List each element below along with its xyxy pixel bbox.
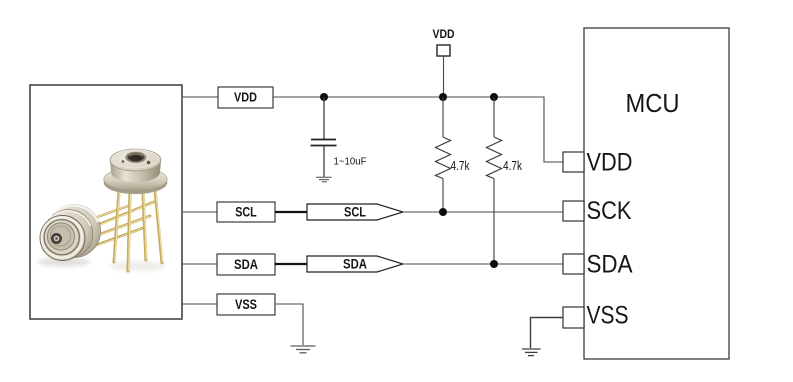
- svg-text:SDA: SDA: [343, 257, 367, 272]
- svg-text:1~10uF: 1~10uF: [334, 156, 367, 168]
- wire SCL box to buffer (thick): [275, 211, 307, 213]
- ground (sensor VSS): [291, 346, 316, 353]
- sensor module box: [30, 85, 182, 319]
- svg-text:4.7k: 4.7k: [451, 159, 471, 173]
- wire SCL arrow to MCU SCK: [403, 211, 563, 213]
- wire MCU VSS to ground: [531, 318, 564, 349]
- junction node R1 top: [439, 93, 447, 101]
- svg-text:MCU: MCU: [626, 88, 680, 118]
- svg-text:VDD: VDD: [234, 90, 257, 105]
- wire sensor to VSS box: [182, 303, 217, 305]
- label box SDA: [217, 254, 275, 275]
- wire sensor to SCL box: [182, 211, 217, 213]
- capacitor C1: [311, 97, 367, 177]
- svg-text:VSS: VSS: [235, 297, 257, 312]
- wire VSS box to ground: [275, 304, 303, 345]
- svg-text:SCL: SCL: [344, 205, 366, 220]
- label box VSS: [217, 294, 275, 315]
- SCL signal arrow: [307, 204, 403, 220]
- upright can legs: [114, 190, 163, 271]
- resistor R1 4.7k: [436, 97, 471, 212]
- pin SDA: [563, 251, 633, 279]
- pin VSS: [563, 302, 629, 330]
- upright can: [104, 149, 168, 194]
- MCU box: [584, 28, 729, 359]
- lying can: [40, 205, 101, 261]
- svg-text:VDD: VDD: [587, 149, 633, 177]
- svg-text:VSS: VSS: [587, 302, 629, 330]
- svg-text:SCL: SCL: [235, 205, 257, 220]
- VDD rail wire: [273, 97, 563, 162]
- svg-text:4.7k: 4.7k: [503, 159, 523, 173]
- lying can pins: [86, 202, 154, 246]
- junction node capacitor tap: [320, 93, 328, 101]
- junction node R2 bottom: [490, 260, 498, 268]
- sensor photo: [38, 149, 167, 271]
- junction node R2 top: [490, 93, 498, 101]
- ground (capacitor): [316, 177, 332, 182]
- svg-text:VDD: VDD: [433, 29, 455, 41]
- ground (MCU VSS): [522, 349, 541, 356]
- wire sensor to VDD box: [182, 96, 218, 98]
- SDA signal arrow: [307, 256, 403, 272]
- label box VDD: [218, 87, 273, 108]
- pin SCK: [563, 197, 632, 225]
- label box SCL: [217, 202, 275, 222]
- pin VDD: [563, 149, 633, 177]
- wire SDA box to buffer (thick): [275, 263, 307, 265]
- svg-text:SCK: SCK: [587, 197, 632, 225]
- resistor R2 4.7k: [487, 97, 523, 264]
- svg-text:SDA: SDA: [587, 251, 633, 279]
- wire sensor to SDA box: [182, 263, 217, 265]
- svg-text:SDA: SDA: [234, 257, 258, 272]
- junction node R1 bottom: [439, 208, 447, 216]
- wire SDA arrow to MCU SDA: [403, 263, 563, 265]
- VDD supply symbol: [433, 29, 455, 97]
